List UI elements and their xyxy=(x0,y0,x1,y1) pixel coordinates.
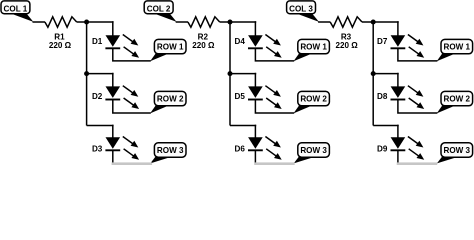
LED D8 xyxy=(391,86,425,109)
wire xyxy=(255,48,294,61)
wire xyxy=(254,125,256,139)
wire (column bus) xyxy=(229,22,231,126)
svg-text:ROW 2: ROW 2 xyxy=(444,95,471,104)
wire (clipped at image bottom) xyxy=(112,162,153,165)
wire xyxy=(220,21,257,23)
wire xyxy=(112,21,114,36)
net label ROW 1 xyxy=(150,39,186,61)
net label ROW 1 xyxy=(437,39,473,61)
svg-text:D5: D5 xyxy=(235,92,246,101)
resistor R3 xyxy=(330,17,362,27)
svg-text:ROW 3: ROW 3 xyxy=(300,146,327,155)
wire xyxy=(254,73,256,88)
net label COL 3 xyxy=(287,1,319,22)
wire (clipped at image bottom) xyxy=(397,162,438,165)
LED D1 xyxy=(105,35,139,58)
node (middle junction) xyxy=(84,71,89,76)
wire xyxy=(112,73,114,88)
wire (branch to D5) xyxy=(230,73,256,75)
wire (branch to D3) xyxy=(87,125,114,127)
wire (branch to D9) xyxy=(373,125,399,127)
svg-text:D2: D2 xyxy=(92,92,103,101)
svg-text:D1: D1 xyxy=(92,37,103,46)
svg-text:220 Ω: 220 Ω xyxy=(335,41,358,50)
wire (column bus) xyxy=(372,22,374,126)
wire xyxy=(112,125,114,139)
wire xyxy=(113,100,151,114)
svg-text:COL 3: COL 3 xyxy=(289,4,313,13)
svg-text:ROW 3: ROW 3 xyxy=(444,146,471,155)
svg-text:D4: D4 xyxy=(235,37,246,46)
wire xyxy=(112,150,114,162)
wire xyxy=(397,125,399,139)
svg-text:ROW 3: ROW 3 xyxy=(157,146,184,155)
wire xyxy=(318,21,330,23)
wire (column bus) xyxy=(86,22,88,126)
svg-text:D9: D9 xyxy=(377,144,388,153)
wire (branch to D8) xyxy=(373,73,399,75)
net label ROW 3 xyxy=(437,143,473,164)
LED D3 xyxy=(105,137,139,160)
svg-text:220 Ω: 220 Ω xyxy=(192,41,215,50)
wire xyxy=(33,21,46,23)
node (top junction) xyxy=(84,20,89,25)
svg-text:ROW 2: ROW 2 xyxy=(300,95,327,104)
net label ROW 2 xyxy=(294,91,330,113)
net label ROW 2 xyxy=(437,91,473,113)
node (top junction) xyxy=(371,20,376,25)
node (top junction) xyxy=(228,20,233,25)
svg-text:COL 2: COL 2 xyxy=(147,4,171,13)
svg-text:D8: D8 xyxy=(377,92,388,101)
svg-text:D6: D6 xyxy=(235,144,246,153)
net label ROW 2 xyxy=(150,91,186,113)
wire (branch to D2) xyxy=(87,73,114,75)
wire xyxy=(397,21,399,36)
wire xyxy=(77,21,114,23)
svg-text:COL 1: COL 1 xyxy=(4,4,28,13)
net label ROW 3 xyxy=(294,143,330,164)
wire xyxy=(113,48,151,61)
LED D9 xyxy=(391,137,425,160)
LED D4 xyxy=(248,35,282,58)
svg-text:220 Ω: 220 Ω xyxy=(49,41,72,50)
resistor R1 xyxy=(45,17,77,27)
svg-text:D3: D3 xyxy=(92,144,103,153)
wire xyxy=(254,21,256,36)
wire xyxy=(176,21,188,23)
net label ROW 3 xyxy=(150,143,186,164)
LED D5 xyxy=(248,86,282,109)
wire xyxy=(397,150,399,162)
wire (clipped at image bottom) xyxy=(254,162,295,165)
wire xyxy=(362,21,399,23)
node (middle junction) xyxy=(371,71,376,76)
LED D2 xyxy=(105,86,139,109)
wire xyxy=(398,48,438,61)
wire xyxy=(398,100,438,114)
wire xyxy=(255,100,294,114)
net label COL 1 xyxy=(1,1,33,22)
svg-text:D7: D7 xyxy=(377,37,388,46)
net label COL 2 xyxy=(144,1,176,22)
node (middle junction) xyxy=(228,71,233,76)
svg-text:ROW 1: ROW 1 xyxy=(444,43,471,52)
wire xyxy=(254,150,256,162)
LED D7 xyxy=(391,35,425,58)
wire xyxy=(397,73,399,88)
net label ROW 1 xyxy=(294,39,330,61)
resistor R2 xyxy=(188,17,220,27)
wire (branch to D6) xyxy=(230,125,256,127)
LED D6 xyxy=(248,137,282,160)
svg-text:ROW 2: ROW 2 xyxy=(157,95,184,104)
svg-text:ROW 1: ROW 1 xyxy=(157,43,184,52)
svg-text:ROW 1: ROW 1 xyxy=(300,43,327,52)
